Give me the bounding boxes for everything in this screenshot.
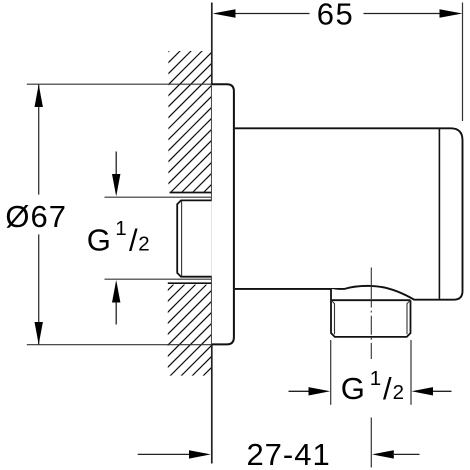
outlet thread minor line left <box>331 301 334 335</box>
outlet center line solid lower extension <box>370 418 372 468</box>
body outline with rounded right end and outlet boss curve <box>235 128 463 299</box>
dim O67: top extension line <box>27 83 211 85</box>
dim O67: bottom arrow <box>35 322 43 345</box>
dim 65: left arrow <box>213 9 236 17</box>
dim 27-41: right arrow pointing left <box>372 450 394 458</box>
outlet center line (dash-dot) <box>370 268 372 360</box>
wall hatch lower section <box>158 236 222 421</box>
svg-text:G: G <box>341 371 365 406</box>
svg-text:1: 1 <box>115 217 126 240</box>
svg-text:2: 2 <box>138 232 149 255</box>
outlet thread minor line right <box>407 301 410 335</box>
wall face line (also extension line for 65 and 27-41 dims) <box>211 3 213 464</box>
outlet G1/2 dim: right extension line <box>410 340 412 405</box>
inlet thread label G 1/2 <box>87 217 150 257</box>
wall hatch upper section <box>158 0 222 238</box>
svg-text:Ø67: Ø67 <box>5 199 67 234</box>
svg-text:65: 65 <box>317 0 354 32</box>
outlet G1/2 dim: left extension line <box>330 340 332 405</box>
dim 65: right extension line <box>462 3 464 122</box>
dim O67: vertical dimension line upper segment <box>38 84 40 194</box>
svg-text:1: 1 <box>370 367 381 390</box>
inlet G1/2 dim: upper arrow pointing down <box>115 152 117 176</box>
outlet G1/2 dim: left arrow pointing right <box>289 390 309 392</box>
inlet G1/2 dim: lower arrow pointing up <box>112 280 120 303</box>
svg-text:/: / <box>129 222 138 257</box>
escutcheon wall plate <box>212 84 234 344</box>
inlet G1/2 dim: bottom extension line <box>105 278 212 280</box>
outlet thread shoulder line <box>331 299 411 301</box>
dim O67: vertical dimension line lower segment <box>38 234 40 344</box>
dim 27-41: left arrow pointing right <box>138 453 189 455</box>
svg-text:27-41: 27-41 <box>246 437 330 470</box>
inlet thread minor-diameter line <box>181 201 183 276</box>
inlet thread G1/2 behind wall: outline with chamfers <box>177 200 212 276</box>
wall cavity notch top edge <box>170 192 212 194</box>
svg-text:G: G <box>87 222 111 257</box>
outlet nipple outline with chamfers <box>331 289 411 337</box>
dim 65: right arrow <box>440 9 463 17</box>
outlet thread label G 1/2 <box>341 367 404 406</box>
wall cavity notch bottom edge <box>168 282 212 284</box>
dim O67: top arrow <box>35 84 43 107</box>
outlet G1/2 dim: right arrow pointing left <box>412 387 434 395</box>
body end cap line <box>438 129 440 299</box>
svg-text:2: 2 <box>393 381 404 404</box>
inlet G1/2 dim: top extension line <box>105 196 212 198</box>
svg-text:/: / <box>383 371 392 406</box>
dim O67: bottom extension line <box>27 344 211 346</box>
